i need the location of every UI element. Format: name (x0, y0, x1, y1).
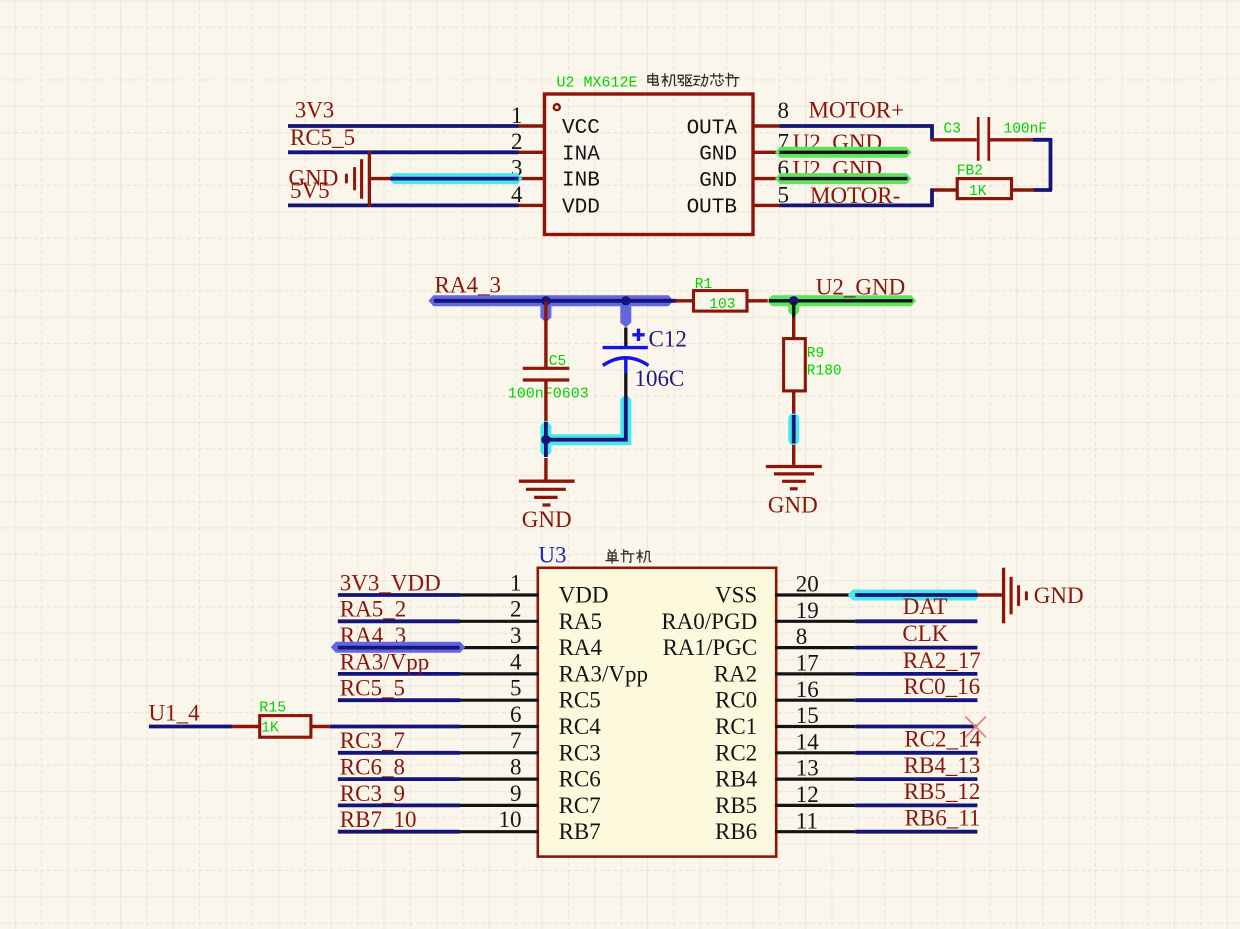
net label MOTOR- (810, 183, 900, 208)
svg-text:7: 7 (510, 728, 522, 753)
svg-text:RC7: RC7 (559, 793, 601, 818)
U2 origin dot (553, 103, 561, 111)
U3 pin number 5 (510, 676, 522, 701)
U3 pin 16 stub (775, 699, 855, 702)
wire to U3 pin 2 (338, 619, 460, 623)
svg-text:100nF0603: 100nF0603 (508, 385, 589, 402)
svg-text:RB7_10: RB7_10 (340, 807, 417, 832)
U2 pin 3 stub (518, 177, 546, 180)
svg-text:RC5_5: RC5_5 (340, 676, 405, 701)
U3 pin number 14 (796, 729, 820, 754)
wire to R9 (red) (792, 317, 795, 340)
U2 pin name OUTB (687, 197, 737, 220)
U3 pin name RB5 (715, 793, 757, 818)
U2 pin name GND (699, 170, 737, 193)
svg-text:3V3_VDD: 3V3_VDD (340, 570, 441, 595)
net label RC2_14 (904, 726, 981, 751)
label R15 (259, 700, 286, 717)
U3 pin name RB7 (559, 819, 601, 844)
U3 pin number 1 (510, 570, 522, 595)
svg-text:RA1/PGC: RA1/PGC (663, 635, 758, 660)
U3 pin name RC6 (559, 767, 601, 792)
U3 pin 20 stub (775, 593, 855, 596)
svg-text:INA: INA (562, 143, 600, 166)
wire C3 to FB2 (right) (1033, 138, 1052, 190)
net label U2_GND (pin7) (793, 130, 882, 155)
U3 pin number 15 (796, 703, 819, 728)
svg-text:2: 2 (511, 129, 523, 154)
net label DAT (903, 594, 948, 619)
svg-text:MOTOR+: MOTOR+ (809, 97, 905, 122)
U2 pin name INB (562, 170, 600, 193)
svg-text:DAT: DAT (903, 594, 948, 619)
net label CLK (902, 621, 948, 646)
U3 pin number 20 (796, 572, 819, 597)
svg-text:1K: 1K (969, 184, 987, 200)
wire from U3 pin 12 (855, 804, 977, 808)
net label RB6_11 (905, 806, 981, 831)
U3 pin number 9 (510, 781, 522, 806)
U2 pin 4 stub (518, 204, 546, 207)
comment text 电机驱动芯片 (648, 73, 739, 86)
junction on RA4_3 at C12 (621, 296, 630, 305)
wire to U3 pin 1 (338, 593, 460, 597)
net label U2_GND (pin6) (793, 156, 882, 181)
U3 pin name VDD (559, 583, 609, 608)
svg-text:2: 2 (510, 597, 522, 622)
wire 3V3 to U2 pin1 (288, 124, 519, 128)
wire RA4_3 to C12 (624, 328, 627, 347)
U3 pin number 10 (499, 807, 522, 832)
svg-text:RA0/PGD: RA0/PGD (661, 609, 757, 634)
svg-text:3V3: 3V3 (295, 98, 335, 123)
U2 pin number 7 (778, 130, 790, 155)
svg-text:4: 4 (511, 182, 523, 207)
U2 pin number 4 (511, 182, 523, 207)
svg-text:RA5: RA5 (559, 609, 602, 634)
svg-text:U2_GND: U2_GND (816, 274, 905, 299)
svg-text:RC3_7: RC3_7 (340, 728, 405, 753)
U3 pin name RA2 (714, 661, 757, 686)
U3 pin 9 stub (459, 804, 539, 807)
wire RA4_3 over highlight (338, 646, 460, 650)
svg-text:RC3_9: RC3_9 (340, 781, 405, 806)
U3 pin 19 stub (775, 620, 855, 623)
U2 pin 2 stub (518, 151, 546, 154)
wire from U3 pin 8 (855, 646, 977, 650)
U3 pin name RA1/PGC (663, 635, 758, 660)
svg-text:R9: R9 (807, 346, 824, 362)
wire RC5_5 to U2 pin2 (288, 150, 519, 154)
U2 pin name VDD (562, 196, 600, 219)
wire to U3 pin 7 (338, 751, 460, 755)
highlight green on pin7 wire (775, 147, 912, 158)
label 103 (709, 297, 735, 313)
svg-text:16: 16 (796, 677, 819, 702)
U3 pin name RA0/PGD (661, 609, 757, 634)
svg-text:RB6: RB6 (715, 819, 757, 844)
U2 pin name OUTA (687, 117, 738, 140)
resistor R9 (784, 339, 806, 391)
net label RC3_9 (340, 781, 405, 806)
U3 pin name RC0 (715, 688, 757, 713)
U3 pin name RC5 (559, 688, 601, 713)
U2 pin number 1 (511, 103, 523, 128)
label 106C (635, 366, 685, 391)
net label RB4_13 (904, 753, 981, 778)
wire GND to U2 pin3 (390, 177, 519, 181)
svg-text:RB6_11: RB6_11 (905, 806, 981, 831)
wire to U3 pin 10 (338, 830, 460, 834)
highlight blue stub to C5 (540, 302, 551, 323)
svg-text:13: 13 (796, 756, 819, 781)
U3 pin 17 stub (775, 672, 855, 675)
svg-text:RA5_2: RA5_2 (340, 597, 406, 622)
wire link C12 bottom navy (624, 397, 628, 442)
U3 pin name RA4 (559, 635, 603, 660)
svg-text:CLK: CLK (902, 621, 948, 646)
junction on RA4_3 at C5 (541, 296, 550, 305)
svg-text:RC0: RC0 (715, 688, 757, 713)
wire R9 to GND (792, 391, 795, 465)
svg-text:GND: GND (699, 170, 737, 193)
svg-text:1: 1 (511, 103, 523, 128)
svg-text:RA2_17: RA2_17 (903, 648, 981, 673)
label 100nF0603 (508, 385, 589, 402)
svg-text:8: 8 (778, 98, 790, 123)
net label RC5_5 (290, 125, 355, 150)
svg-text:RC2: RC2 (715, 740, 757, 765)
label C3 (944, 122, 961, 138)
wire to U3 pin 5 (338, 698, 460, 702)
wire from U3 pin 14 (855, 751, 977, 755)
wire from U3 pin 20 (855, 593, 977, 597)
svg-text:15: 15 (796, 703, 819, 728)
U2 pin number 3 (511, 155, 523, 180)
svg-text:11: 11 (796, 808, 818, 833)
U3 pin number 2 (510, 597, 522, 622)
U3 pin 8 stub (459, 777, 539, 780)
junction at ground link (541, 435, 550, 444)
label GND (left of U2) (289, 166, 339, 191)
U3 pin number 4 (510, 649, 522, 674)
net label U1_4 (149, 701, 201, 726)
svg-text:10: 10 (499, 807, 522, 832)
U2 pin name VCC (562, 117, 600, 140)
highlight cyan VSS wire (848, 590, 981, 601)
net label RA2_17 (903, 648, 981, 673)
svg-text:RC5_5: RC5_5 (290, 125, 355, 150)
svg-text:RB4_13: RB4_13 (904, 753, 981, 778)
svg-text:R180: R180 (807, 364, 842, 380)
power symbol GND (left of U2) (346, 151, 390, 206)
U3 pin 13 stub (775, 777, 855, 780)
capacitor C12 plus sign (632, 329, 644, 341)
U3 pin name RC3 (559, 740, 601, 765)
svg-text:U1_4: U1_4 (149, 701, 201, 726)
U2 pin number 6 (778, 156, 790, 181)
svg-text:RB5: RB5 (715, 793, 757, 818)
wire U1_4 to R15 (149, 725, 233, 729)
svg-text:RB5_12: RB5_12 (904, 779, 981, 804)
svg-text:VDD: VDD (559, 583, 609, 608)
wire from U3 pin 17 (855, 672, 977, 676)
capacitor C5 (523, 368, 570, 380)
highlight blue RA4_3 (U3 pin3) (331, 642, 466, 653)
U3 pin number 17 (796, 651, 819, 676)
highlight cyan under R9 (788, 419, 799, 440)
U3 pin number 3 (510, 623, 522, 648)
label GND (under R9) (768, 492, 818, 517)
highlight cyan C5-C12 ground link (540, 394, 631, 458)
svg-text:3: 3 (510, 623, 522, 648)
R15 right lead (311, 725, 330, 728)
chip U2 body (545, 94, 754, 235)
svg-text:RC1: RC1 (715, 714, 757, 739)
svg-text:RB4: RB4 (715, 767, 758, 792)
U3 pin name RC7 (559, 793, 601, 818)
U3 pin 8 stub (775, 646, 855, 649)
svg-text:R1: R1 (695, 277, 712, 293)
svg-text:C5: C5 (549, 354, 566, 370)
power symbol GND (right of U3) (1004, 568, 1027, 624)
net label 5V5 (290, 178, 330, 203)
highlight blue RA4_3 bus (429, 295, 674, 306)
net label RA4_3 (mid) (435, 273, 501, 298)
svg-text:1K: 1K (261, 721, 279, 737)
highlight green stub to R9 (788, 302, 799, 317)
svg-text:8: 8 (796, 624, 808, 649)
svg-text:RA2: RA2 (714, 661, 757, 686)
U2 pin 6 stub (752, 177, 780, 180)
U3 pin number 13 (796, 756, 819, 781)
label 1K (FB2) (969, 184, 987, 200)
svg-text:19: 19 (796, 598, 819, 623)
wire R15 to U3 pin6 (330, 725, 460, 729)
svg-text:C12: C12 (649, 326, 687, 351)
designator/value U2 MX612E (557, 75, 638, 92)
svg-text:RA3/Vpp: RA3/Vpp (559, 661, 648, 686)
wire MOTOR- from pin5 (780, 189, 933, 208)
U2 pin number 2 (511, 129, 523, 154)
svg-text:GND: GND (1034, 583, 1084, 608)
designator U3 (538, 543, 566, 568)
wire from U3 pin 15 (855, 725, 977, 729)
U3 pin name RB4 (715, 767, 758, 792)
net label MOTOR+ (809, 97, 905, 122)
capacitor C12 top plate (603, 346, 648, 349)
U3 pin 11 stub (775, 830, 855, 833)
svg-text:RA4_3: RA4_3 (435, 273, 501, 298)
svg-text:103: 103 (709, 297, 735, 313)
net label RB7_10 (340, 807, 417, 832)
FB2 left lead (931, 188, 957, 191)
svg-text:RC2_14: RC2_14 (904, 726, 981, 751)
wire to U3 pin 8 (338, 777, 460, 781)
U3 pin name RA5 (559, 609, 602, 634)
label FB2 (957, 164, 983, 180)
R1 left lead (675, 299, 694, 302)
U3 pin 7 stub (459, 751, 539, 754)
svg-text:RA3/Vpp: RA3/Vpp (340, 649, 429, 674)
U3 pin number 8 (510, 755, 522, 780)
U3 pin 2 stub (459, 620, 539, 623)
U2 pin 8 stub (752, 124, 780, 127)
ground symbol GND (under C5) (519, 481, 575, 505)
svg-text:GND: GND (289, 166, 339, 191)
capacitor C12 bottom stub (624, 357, 627, 374)
svg-text:5: 5 (510, 676, 522, 701)
wire from U3 pin 11 (855, 830, 977, 834)
U2 pin number 8 (778, 98, 790, 123)
net label U2_GND (mid) (816, 274, 905, 299)
comment text 单片机 (606, 550, 651, 564)
svg-text:RB7: RB7 (559, 819, 601, 844)
wire RA4_3 horizontal (434, 299, 677, 303)
svg-text:RC5: RC5 (559, 688, 601, 713)
net label RA3/Vpp (340, 649, 429, 674)
net label RB5_12 (904, 779, 981, 804)
svg-text:20: 20 (796, 572, 819, 597)
wire U2_GND pin6 (780, 177, 908, 180)
R15 left lead (233, 725, 260, 728)
net label 3V3_VDD (340, 570, 441, 595)
U3 pin number 12 (796, 782, 819, 807)
C3 right lead (990, 138, 1034, 141)
svg-text:GND: GND (522, 507, 572, 532)
svg-text:C3: C3 (944, 122, 961, 138)
svg-text:VCC: VCC (562, 117, 600, 140)
label C5 (549, 354, 566, 370)
U3 pin 14 stub (775, 751, 855, 754)
highlight cyan on INB wire (389, 173, 523, 184)
svg-text:VSS: VSS (715, 583, 757, 608)
U2 pin name INA (562, 143, 600, 166)
U3 pin number 8 (796, 624, 808, 649)
svg-text:106C: 106C (635, 366, 685, 391)
U3 pin 15 stub (775, 725, 855, 728)
svg-text:R15: R15 (259, 700, 286, 717)
FB2 right lead (1012, 188, 1035, 191)
U3 pin name RA3/Vpp (559, 661, 648, 686)
wire C5 to GND (544, 381, 547, 422)
svg-text:OUTB: OUTB (687, 197, 737, 220)
U3 pin name RB6 (715, 819, 757, 844)
U3 pin 3 stub (459, 646, 539, 649)
wire from U3 pin 19 (855, 619, 977, 623)
U3 pin number 6 (510, 702, 522, 727)
R1 right lead (747, 299, 769, 302)
resistor R1 (694, 291, 748, 312)
svg-text:9: 9 (510, 781, 522, 806)
svg-text:14: 14 (796, 729, 820, 754)
wire VSS to GND (red) (977, 593, 1002, 596)
wire in cyan under R9 (792, 415, 796, 444)
U2 pin number 5 (778, 183, 790, 208)
wire MOTOR+ from pin8 (780, 124, 933, 140)
svg-text:VDD: VDD (562, 196, 600, 219)
U3 pin name RC4 (559, 714, 602, 739)
U3 pin name RC2 (715, 740, 757, 765)
highlight green on pin6 wire (775, 173, 912, 184)
wire to U3 pin 3 (338, 646, 460, 650)
U3 pin 5 stub (459, 699, 539, 702)
no-ERC cross at pin 15 (965, 717, 986, 738)
svg-text:RC3: RC3 (559, 740, 601, 765)
label C12 (649, 326, 687, 351)
net label RC5_5 (340, 676, 405, 701)
svg-text:INB: INB (562, 170, 600, 193)
U2 pin 1 stub (518, 124, 546, 127)
net label RA5_2 (340, 597, 406, 622)
U3 pin 1 stub (459, 593, 539, 596)
U3 pin 12 stub (775, 804, 855, 807)
svg-text:U2 MX612E: U2 MX612E (557, 75, 638, 92)
U3 pin 4 stub (459, 672, 539, 675)
svg-text:17: 17 (796, 651, 819, 676)
svg-text:6: 6 (510, 702, 522, 727)
wire to U3 pin 9 (338, 804, 460, 808)
U2 pin 7 stub (752, 151, 780, 154)
label R180 (807, 364, 842, 380)
ground symbol GND (under R9) (766, 467, 822, 489)
U3 pin number 19 (796, 598, 819, 623)
svg-text:12: 12 (796, 782, 819, 807)
wire link C12 bottom black (624, 374, 627, 400)
wire link horizontal (546, 438, 628, 442)
U2 pin name GND (699, 144, 737, 167)
net label 3V3 (295, 98, 335, 123)
net label RC3_7 (340, 728, 405, 753)
U3 pin number 11 (796, 808, 818, 833)
U3 pin number 7 (510, 728, 522, 753)
label GND (under C5) (522, 507, 572, 532)
ferrite bead FB2 (957, 179, 1011, 199)
svg-text:8: 8 (510, 755, 522, 780)
svg-text:RC6_8: RC6_8 (340, 755, 405, 780)
net label RA4_3 (340, 623, 406, 648)
highlight green U2_GND wire (767, 295, 916, 306)
wire U2_GND mid (769, 299, 913, 302)
C3 left lead (931, 138, 977, 141)
svg-text:GND: GND (699, 144, 737, 167)
wire from U3 pin 13 (855, 777, 977, 781)
wire 5V5 to U2 pin4 (288, 203, 519, 207)
svg-text:RA4: RA4 (559, 635, 603, 660)
svg-text:RC6: RC6 (559, 767, 601, 792)
label GND (right of U3) (1034, 583, 1084, 608)
svg-text:1: 1 (510, 570, 522, 595)
U2 pin 5 stub (752, 204, 780, 207)
highlight blue stub to C12 (620, 302, 631, 328)
U3 pin name VSS (715, 583, 757, 608)
svg-text:4: 4 (510, 649, 522, 674)
wire RA4_3 to C5 (544, 301, 547, 367)
U3 pin 10 stub (459, 830, 539, 833)
chip U3 body (538, 568, 776, 857)
wire to U3 pin 4 (338, 672, 460, 676)
U3 pin name RC1 (715, 714, 757, 739)
label R9 (807, 346, 824, 362)
svg-text:OUTA: OUTA (687, 117, 738, 140)
label R1 (695, 277, 712, 293)
capacitor C12 arc plate (603, 358, 649, 366)
net label RC6_8 (340, 755, 405, 780)
svg-text:RC4: RC4 (559, 714, 602, 739)
wire link C5 vertical (544, 422, 548, 457)
net label RC0_16 (904, 674, 981, 699)
svg-text:GND: GND (768, 492, 818, 517)
